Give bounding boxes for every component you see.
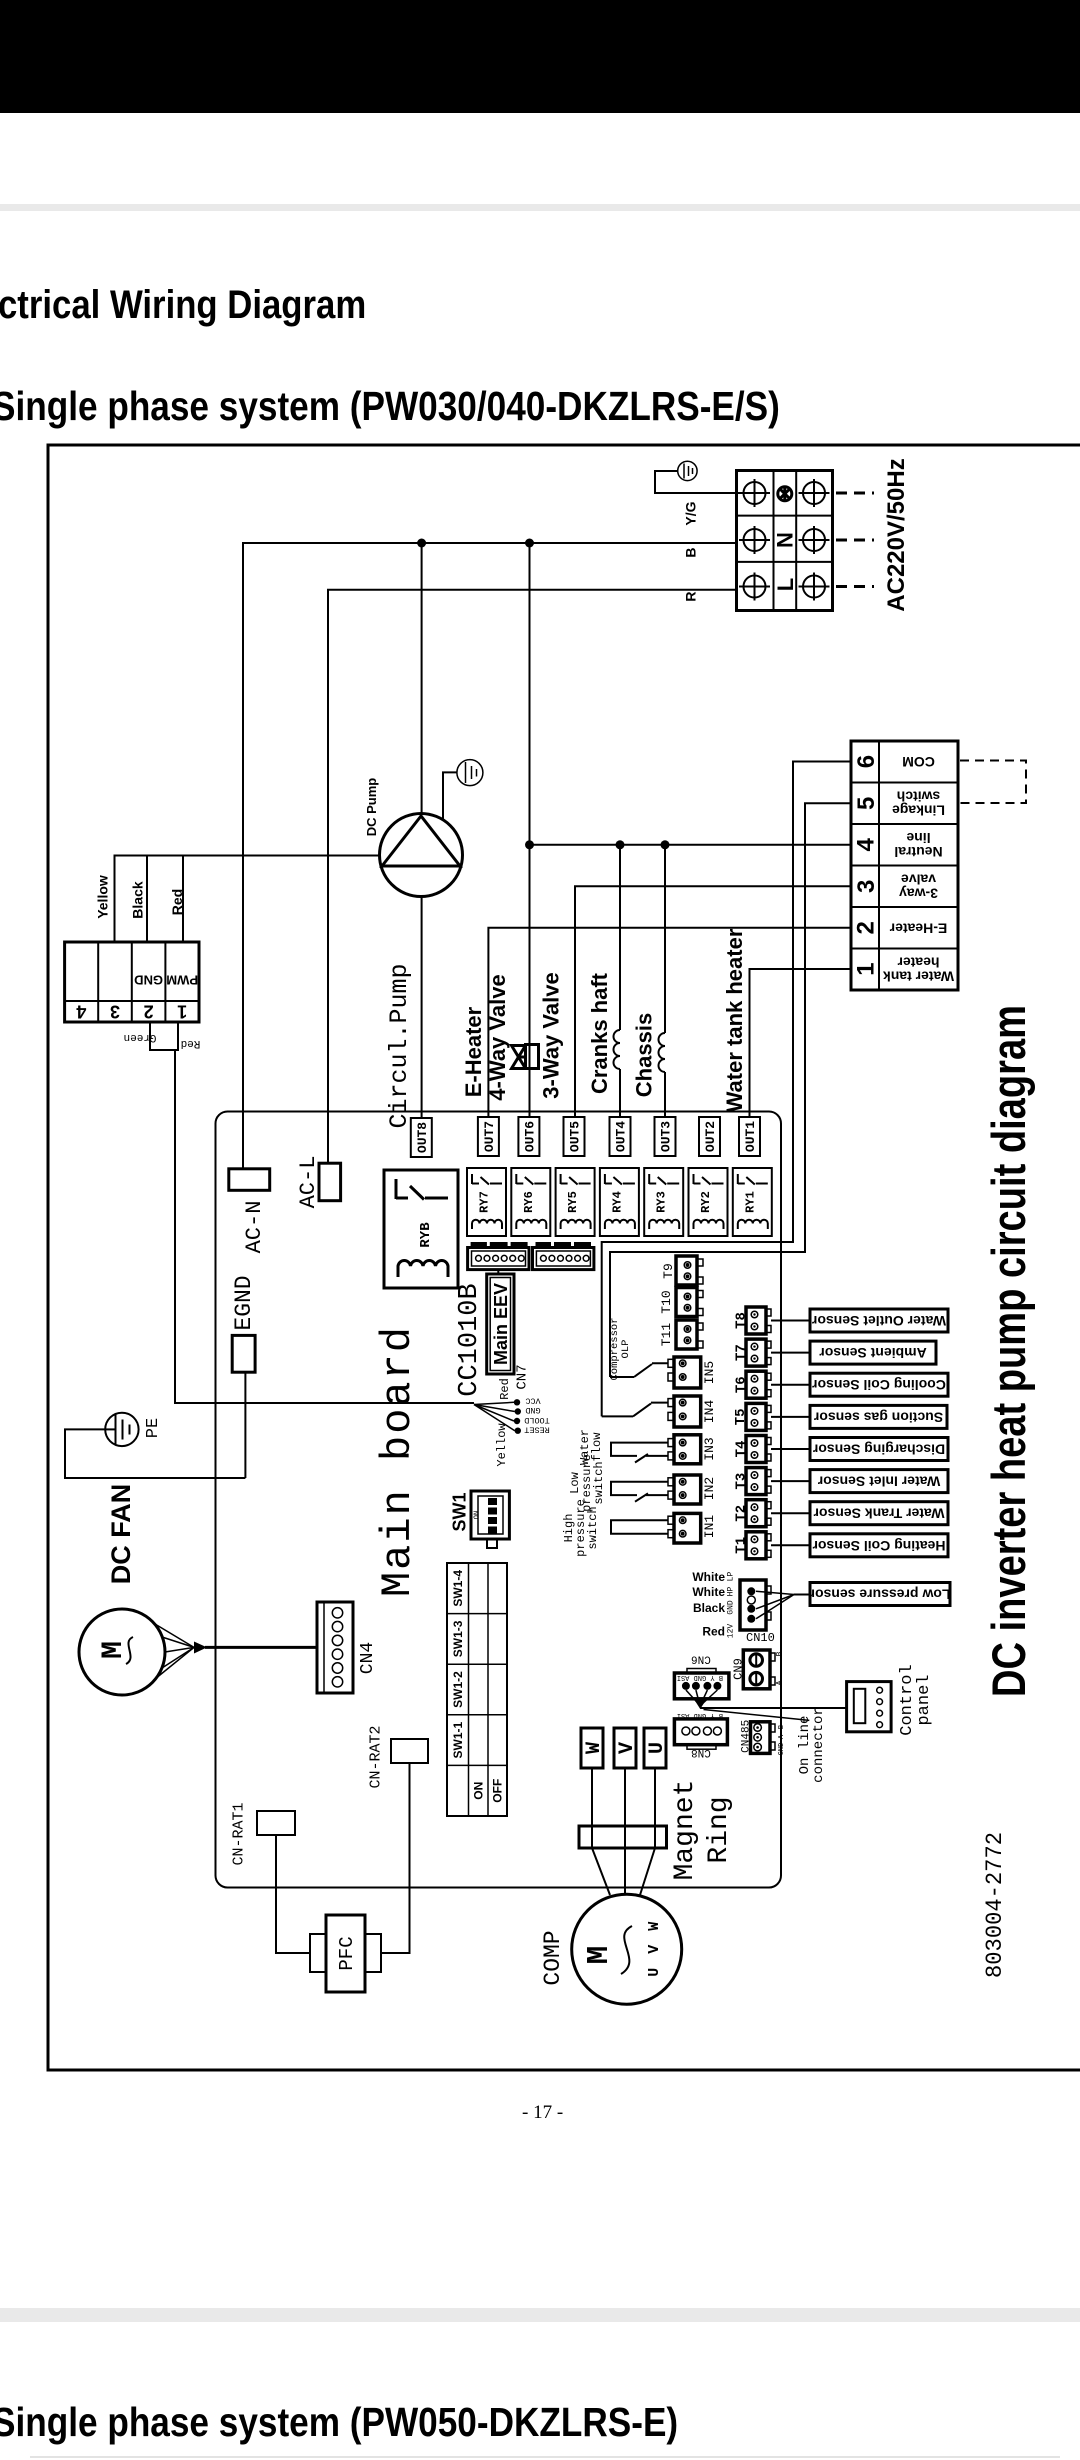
svg-text:T5: T5	[733, 1408, 749, 1425]
screw terminals	[739, 479, 830, 601]
T11 connector	[676, 1320, 703, 1349]
Suction gas sensor box	[810, 1405, 947, 1428]
wire E-Heater row2	[488, 928, 851, 1117]
wire COM row6	[602, 762, 851, 1417]
svg-text:Ambient Sensor: Ambient Sensor	[819, 1345, 927, 1361]
OUT6	[518, 1117, 539, 1156]
svg-text:IN2: IN2	[702, 1477, 717, 1500]
svg-text:GND: GND	[727, 1600, 736, 1615]
EEV connector CN-A	[468, 1245, 529, 1270]
IN2 connector	[668, 1475, 701, 1504]
CN6 connector	[674, 1669, 729, 1699]
Low pressure switch label	[568, 1454, 606, 1512]
motor leads	[592, 1848, 610, 1895]
svg-text:OUT4: OUT4	[614, 1121, 629, 1152]
On line connector label	[797, 1707, 827, 1783]
IN5 connector	[668, 1357, 701, 1388]
gray separator top	[0, 204, 1080, 211]
IN5 switch	[610, 1363, 668, 1377]
svg-text:HP: HP	[727, 1587, 736, 1597]
svg-text:Black: Black	[693, 1601, 725, 1615]
CN8 connector	[674, 1719, 727, 1749]
svg-text:OUT6: OUT6	[522, 1121, 537, 1152]
IN4 switch	[602, 1403, 668, 1417]
svg-text:B: B	[776, 1651, 785, 1656]
svg-text:1: 1	[853, 962, 880, 975]
svg-text:Red: Red	[498, 1378, 512, 1400]
T9 connector	[676, 1256, 703, 1285]
SW1 dip switch	[471, 1491, 509, 1548]
DC pump P1	[380, 814, 463, 897]
svg-text:B: B	[682, 548, 698, 558]
OUT7	[478, 1117, 499, 1156]
IN3 flow switch	[611, 1443, 668, 1463]
relay RY6	[511, 1168, 550, 1236]
terminal block TB1	[737, 471, 833, 611]
svg-text:IN4: IN4	[702, 1400, 717, 1424]
relay RY3	[644, 1168, 683, 1236]
output terminal table TB2	[851, 741, 958, 990]
Main EEV box	[487, 1274, 514, 1374]
svg-text:T6: T6	[733, 1376, 749, 1393]
OUT8	[411, 1118, 432, 1157]
bottom partial next-figure line	[30, 2456, 1060, 2458]
svg-text:W: W	[583, 1742, 606, 1754]
earth electrode symbol top	[678, 461, 697, 480]
svg-text:GND: GND	[525, 1405, 540, 1415]
Low pressure sensor box	[810, 1583, 950, 1606]
svg-text:RYB: RYB	[418, 1222, 434, 1248]
svg-text:Circul.Pump: Circul.Pump	[385, 963, 414, 1128]
IN2 pressure switch	[611, 1482, 668, 1502]
CN-RAT1 wire	[276, 1835, 310, 1953]
svg-text:RY7: RY7	[478, 1191, 492, 1213]
Water Outlet Sensor box	[810, 1309, 948, 1332]
svg-text:3: 3	[853, 880, 880, 893]
svg-text:Ring: Ring	[704, 1796, 735, 1863]
linkage switch dashed box	[960, 761, 1026, 804]
svg-text:Water Inlet Sensor: Water Inlet Sensor	[817, 1474, 940, 1490]
svg-text:Chassis: Chassis	[632, 1013, 657, 1097]
W wire	[591, 1768, 593, 1848]
svg-text:T2: T2	[734, 1505, 750, 1522]
svg-text:SW1-1: SW1-1	[451, 1721, 465, 1758]
diagram frame	[48, 445, 1080, 2070]
SW1 setting table	[447, 1563, 507, 1816]
Water tank heater cell label	[883, 955, 954, 985]
wire R (live)	[328, 590, 737, 1163]
svg-text:AC-N: AC-N	[242, 1201, 267, 1254]
U terminal box	[644, 1728, 669, 1768]
CN9 connector	[743, 1650, 775, 1689]
Control panel label	[898, 1664, 934, 1735]
svg-text:R: R	[682, 592, 698, 602]
svg-text:VCC: VCC	[525, 1396, 540, 1406]
CN-RAT2 wire	[381, 1763, 410, 1953]
svg-text:U: U	[646, 1742, 669, 1754]
T5 connector	[746, 1403, 771, 1430]
svg-text:Red: Red	[702, 1625, 725, 1639]
svg-text:Yellow: Yellow	[495, 1423, 509, 1467]
CN7 wire fan	[474, 1402, 515, 1430]
svg-text:T10: T10	[659, 1290, 674, 1313]
svg-text:2: 2	[853, 921, 880, 934]
junction dot B/pump	[417, 539, 426, 548]
Discharging Sensor box	[810, 1438, 948, 1461]
svg-text:IN1: IN1	[702, 1515, 717, 1539]
svg-text:GND: GND	[778, 1743, 786, 1756]
svg-text:803004-2772: 803004-2772	[982, 1832, 1008, 1978]
svg-text:Cranks haft: Cranks haft	[587, 972, 612, 1094]
svg-text:White: White	[692, 1570, 725, 1584]
CN485 connector	[751, 1722, 776, 1754]
T2 connector	[746, 1500, 771, 1527]
fan wire harness	[155, 1624, 194, 1679]
T6 connector	[746, 1371, 771, 1398]
main board outline	[216, 1112, 782, 1888]
wire plug down to CN7 line	[175, 1050, 474, 1403]
svg-text:SW1: SW1	[450, 1492, 470, 1531]
wire crankshaft heater	[619, 845, 621, 1030]
wire T3 to sensor	[771, 1480, 810, 1482]
relay RY1	[733, 1168, 772, 1236]
svg-text:3: 3	[110, 1002, 120, 1022]
svg-text:E-Heater: E-Heater	[889, 920, 947, 936]
svg-text:COM: COM	[902, 754, 935, 770]
relay RY4	[600, 1168, 639, 1236]
T8 connector	[746, 1307, 771, 1334]
wire pump to OUT8	[421, 897, 423, 1120]
svg-text:N: N	[773, 532, 798, 548]
fan connector table CNF	[65, 942, 199, 1022]
PFC module	[310, 1915, 381, 1992]
svg-text:Heating Coil Sensor: Heating Coil Sensor	[812, 1538, 946, 1554]
svg-text:RY4: RY4	[610, 1191, 624, 1213]
svg-text:M: M	[97, 1641, 131, 1659]
svg-text:CN7: CN7	[515, 1364, 531, 1389]
svg-text:T7: T7	[733, 1344, 749, 1361]
svg-text:Green: Green	[123, 1031, 156, 1043]
CN10 wire fan	[756, 1591, 794, 1619]
V terminal box	[614, 1728, 639, 1768]
svg-text:Y/G: Y/G	[683, 501, 699, 525]
relay RY7	[467, 1168, 506, 1236]
Water Trank Sensor box	[810, 1502, 948, 1525]
svg-text:4: 4	[853, 837, 880, 851]
OUT4	[610, 1117, 631, 1156]
control panel	[847, 1682, 892, 1732]
page number	[522, 2102, 563, 2124]
svg-text:CN-RAT2: CN-RAT2	[368, 1725, 385, 1788]
svg-text:SW1-4: SW1-4	[451, 1570, 465, 1607]
svg-text:PE: PE	[144, 1418, 163, 1438]
relay RY5	[556, 1168, 595, 1236]
svg-text:Red: Red	[181, 1037, 201, 1049]
OUT5	[564, 1117, 585, 1156]
svg-text:L: L	[773, 578, 798, 591]
svg-text:valve: valve	[901, 872, 936, 888]
svg-text:Yellow: Yellow	[95, 875, 111, 919]
svg-text:DC Pump: DC Pump	[364, 778, 379, 837]
svg-text:Main board: Main board	[374, 1325, 422, 1597]
svg-text:RY2: RY2	[699, 1191, 713, 1213]
Cooling Coil Sensor box	[810, 1373, 948, 1396]
svg-text:Water tank heater: Water tank heater	[722, 928, 747, 1112]
crankshaft heater coil	[614, 1030, 620, 1069]
IN3 connector	[668, 1435, 701, 1464]
svg-text:AC220V/50Hz: AC220V/50Hz	[883, 458, 910, 611]
svg-text:T9: T9	[661, 1263, 676, 1279]
svg-text:3-Way Valve: 3-Way Valve	[539, 972, 564, 1098]
wire Neutral row4	[530, 844, 852, 846]
wire T1 to sensor	[771, 1544, 810, 1546]
earth screw in middle column	[778, 486, 792, 502]
wire T8 to sensor	[771, 1320, 810, 1322]
svg-text:PWM: PWM	[166, 973, 198, 988]
wire 3-way valve row3	[575, 886, 851, 1117]
Water flow label	[578, 1429, 604, 1465]
svg-text:IN5: IN5	[702, 1361, 717, 1384]
wire T6 to sensor	[771, 1384, 810, 1386]
svg-text:CC1010B: CC1010B	[455, 1283, 485, 1396]
pump earth symbol	[457, 760, 483, 786]
CN-RAT2 box	[391, 1739, 428, 1763]
IN1 connector	[668, 1513, 701, 1543]
heading 1	[0, 283, 366, 328]
svg-text:switch: switch	[897, 789, 941, 805]
junction dot B/valve branch	[525, 539, 534, 548]
svg-text:OUT8: OUT8	[415, 1122, 430, 1153]
wire T7 to sensor	[771, 1352, 810, 1354]
svg-text:GND: GND	[134, 973, 163, 988]
svg-text:4-Way Valve: 4-Way Valve	[485, 974, 510, 1100]
pump earth stub wire	[443, 772, 457, 820]
IN1 pressure switch loop	[611, 1520, 668, 1534]
V wire	[624, 1768, 626, 1848]
svg-text:SW1-2: SW1-2	[451, 1671, 465, 1708]
U wire	[654, 1768, 656, 1848]
svg-text:OUT3: OUT3	[659, 1121, 674, 1152]
Linkage switch cell label	[892, 789, 945, 819]
CN10 connector	[740, 1580, 771, 1630]
svg-text:DC FAN: DC FAN	[106, 1484, 136, 1585]
svg-text:RESET: RESET	[524, 1425, 550, 1435]
svg-text:OFF: OFF	[491, 1779, 505, 1803]
heading 3 bottom	[0, 2399, 678, 2446]
svg-text:4: 4	[76, 1002, 86, 1022]
svg-text:IN3: IN3	[702, 1437, 717, 1460]
svg-text:CN485: CN485	[741, 1720, 753, 1753]
T1 connector	[746, 1532, 771, 1559]
svg-text:A: A	[776, 1680, 785, 1685]
svg-text:AC-L: AC-L	[296, 1156, 321, 1209]
svg-text:T8: T8	[734, 1312, 750, 1329]
green/red plug box	[150, 1022, 178, 1050]
3-way valve cell label	[899, 872, 938, 902]
magnet ring	[579, 1826, 667, 1848]
OUT1	[739, 1117, 760, 1156]
OUT2	[699, 1117, 720, 1156]
CN6 wire fan to junction	[686, 1690, 718, 1705]
heading 2	[0, 383, 780, 430]
svg-text:connector: connector	[811, 1707, 827, 1783]
svg-text:switch: switch	[586, 1506, 600, 1549]
svg-text:2: 2	[144, 1002, 154, 1022]
svg-text:Suction gas sensor: Suction gas sensor	[813, 1409, 943, 1425]
svg-text:COMP: COMP	[540, 1930, 566, 1985]
svg-text:Red: Red	[169, 889, 185, 915]
svg-text:DC inverter heat pump circuit: DC inverter heat pump circuit diagram	[982, 1005, 1035, 1697]
High pressure switch label	[562, 1499, 600, 1557]
top black status bar	[0, 0, 1080, 113]
svg-text:B: B	[778, 1725, 786, 1729]
W terminal box	[581, 1728, 606, 1768]
junction dots row4	[525, 840, 534, 849]
svg-text:5: 5	[853, 797, 880, 810]
EGND box	[232, 1335, 255, 1372]
CN4 connector	[317, 1602, 353, 1693]
T3 connector	[746, 1468, 771, 1495]
svg-text:CN8: CN8	[691, 1746, 711, 1758]
wire 4-way valve branch	[529, 543, 531, 1117]
svg-text:SW1-3: SW1-3	[451, 1620, 465, 1657]
chassis heater coil	[659, 1033, 666, 1072]
svg-text:ON: ON	[474, 1511, 482, 1519]
svg-text:T1: T1	[734, 1537, 750, 1554]
svg-text:Water Outlet Sensor: Water Outlet Sensor	[811, 1313, 946, 1329]
svg-text:T11: T11	[659, 1323, 674, 1347]
gray separator bottom	[0, 2308, 1080, 2322]
svg-text:E-Heater: E-Heater	[461, 1006, 486, 1097]
T4 connector	[746, 1436, 771, 1463]
wire black	[146, 856, 148, 943]
on line connector arrow	[704, 1710, 810, 1721]
wire T5 to sensor	[771, 1416, 810, 1418]
svg-text:TOOLD: TOOLD	[524, 1415, 550, 1425]
svg-text:T3: T3	[734, 1473, 750, 1490]
EGND wire	[244, 1372, 246, 1478]
svg-text:V: V	[616, 1742, 639, 1754]
4-way valve symbol	[512, 1045, 539, 1069]
svg-text:Main EEV: Main EEV	[491, 1283, 511, 1365]
svg-text:6: 6	[853, 755, 880, 768]
svg-text:switch: switch	[592, 1461, 606, 1504]
svg-text:Discharging Sensor: Discharging Sensor	[812, 1442, 945, 1458]
svg-text:LP: LP	[727, 1572, 736, 1582]
wire chassis heater	[664, 845, 666, 1033]
svg-text:CN4: CN4	[358, 1642, 378, 1674]
svg-text:panel: panel	[915, 1674, 934, 1725]
svg-text:heater: heater	[897, 955, 940, 971]
svg-text:M: M	[582, 1946, 617, 1965]
svg-text:PFC: PFC	[336, 1936, 358, 1970]
Water Inlet Sensor box	[810, 1470, 948, 1493]
wire Linkage row5	[610, 803, 851, 1377]
AC-L box	[319, 1163, 341, 1201]
wire Y/G to earth	[655, 471, 743, 493]
PE earth symbol	[105, 1413, 138, 1446]
svg-text:RY5: RY5	[566, 1191, 580, 1213]
svg-text:Low pressure sensor: Low pressure sensor	[809, 1587, 950, 1603]
OUT3	[655, 1117, 676, 1156]
svg-text:T4: T4	[734, 1441, 750, 1458]
AC-N box	[229, 1169, 270, 1191]
PE wire	[65, 1429, 245, 1478]
svg-text:OUT5: OUT5	[568, 1121, 583, 1152]
DC FAN motor M1	[79, 1609, 165, 1695]
dashed supply leads	[836, 493, 874, 587]
wire harness to CN4	[205, 1646, 317, 1649]
Ambient Sensor box	[810, 1341, 936, 1364]
IN4 connector	[668, 1396, 701, 1427]
svg-text:Black: Black	[130, 881, 146, 919]
svg-text:12V: 12V	[727, 1624, 736, 1639]
svg-text:OUT1: OUT1	[743, 1121, 758, 1152]
wire pump feed	[421, 543, 423, 814]
svg-text:White: White	[692, 1585, 725, 1599]
relay RY2	[689, 1168, 728, 1236]
svg-text:ON: ON	[471, 1782, 485, 1800]
svg-text:Water Trank Sensor: Water Trank Sensor	[813, 1506, 945, 1522]
svg-text:OUT2: OUT2	[703, 1121, 718, 1152]
svg-text:B Y GND ASI: B Y GND ASI	[677, 1711, 723, 1719]
svg-text:EGND: EGND	[231, 1275, 257, 1330]
wire junction to control panel	[700, 1707, 846, 1709]
Neutral line cell label	[894, 830, 942, 860]
relay RYB	[384, 1170, 458, 1288]
T7 connector	[746, 1339, 771, 1366]
wire water tank heater row1	[750, 969, 852, 1117]
svg-text:Magnet: Magnet	[670, 1780, 701, 1881]
svg-text:1: 1	[177, 1002, 187, 1022]
wire red	[182, 856, 184, 943]
CN-RAT1 box	[257, 1811, 295, 1835]
wire B (neutral)	[243, 543, 737, 1169]
svg-text:RY3: RY3	[655, 1191, 669, 1213]
pump wire bus	[115, 856, 380, 943]
wire connector to EEV	[497, 1270, 499, 1274]
svg-text:line: line	[906, 830, 930, 846]
svg-text:B Y GND ASI: B Y GND ASI	[677, 1673, 723, 1681]
T10 connector	[676, 1288, 703, 1317]
wire T2 to sensor	[771, 1512, 810, 1514]
svg-text:Cooling Coil Sensor: Cooling Coil Sensor	[812, 1377, 946, 1393]
svg-text:U V W: U V W	[646, 1919, 663, 1977]
EEV connector CN-B	[533, 1245, 594, 1270]
svg-text:OUT7: OUT7	[482, 1121, 497, 1152]
COMP motor M2	[572, 1894, 682, 2004]
wire T4 to sensor	[771, 1448, 810, 1450]
svg-text:OLP: OLP	[620, 1340, 632, 1359]
svg-text:CN-RAT1: CN-RAT1	[231, 1802, 248, 1865]
svg-text:CN9: CN9	[732, 1658, 746, 1680]
svg-text:CN10: CN10	[746, 1631, 775, 1645]
Compressor OLP label	[609, 1317, 632, 1380]
Magnet Ring label	[670, 1780, 735, 1881]
Heating Coil Sensor box	[810, 1534, 948, 1557]
svg-text:RY1: RY1	[743, 1191, 757, 1213]
svg-text:RY6: RY6	[522, 1191, 536, 1213]
svg-text:CN6: CN6	[691, 1653, 711, 1665]
